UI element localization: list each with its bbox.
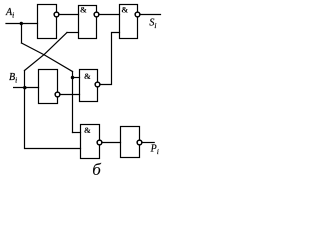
inverter U4 output bubble bbox=[55, 92, 60, 97]
input label Ai bbox=[5, 7, 14, 20]
output label Si bbox=[149, 18, 156, 31]
caption b bbox=[92, 160, 101, 179]
nand U2b output bubble bbox=[95, 82, 100, 87]
nand U2b symbol bbox=[84, 71, 91, 81]
node B junction bbox=[23, 86, 27, 90]
wire U4 out to U2b bbox=[60, 94, 80, 96]
svg-text:&: & bbox=[80, 4, 87, 14]
nand U3 output bubble bbox=[135, 12, 140, 17]
inverter U6 output bubble bbox=[137, 140, 142, 145]
nand U2 body bbox=[79, 6, 97, 39]
node A2 junction bbox=[71, 76, 75, 80]
wire B drop to U5 bbox=[25, 88, 81, 149]
wire Si output bbox=[140, 14, 161, 16]
input label Bi bbox=[9, 72, 17, 85]
node A junction bbox=[20, 22, 23, 25]
wire A to U5 input bbox=[73, 132, 81, 134]
nand U2 output bubble bbox=[94, 12, 99, 17]
wire B rise bbox=[24, 71, 26, 88]
wire Pi output bbox=[142, 142, 154, 144]
wire B to U2 gate input bbox=[67, 32, 79, 34]
wire B diagonal bbox=[25, 33, 68, 71]
inverter U6 body bbox=[121, 127, 140, 158]
wire U5 out to U6 bbox=[102, 142, 121, 144]
wire Bi input bbox=[14, 87, 39, 89]
wire Ai input bbox=[6, 23, 38, 25]
svg-text:&: & bbox=[84, 71, 91, 81]
nand U5 output bubble bbox=[97, 140, 102, 145]
nand U2b body bbox=[80, 70, 98, 102]
wire A riser to lower gates bbox=[72, 72, 74, 133]
svg-text:&: & bbox=[121, 4, 128, 14]
svg-text:б: б bbox=[92, 160, 101, 179]
output label Pi bbox=[150, 143, 159, 156]
nand U5 symbol bbox=[84, 125, 91, 135]
wire A to U4 input bbox=[73, 77, 80, 79]
inverter U1 output bubble bbox=[54, 12, 59, 17]
wire U2 out to U3 bbox=[99, 14, 120, 16]
wire A drop bbox=[21, 24, 23, 44]
nand U2 symbol bbox=[80, 4, 87, 14]
nand U5 body bbox=[81, 125, 100, 159]
inverter U4 body bbox=[39, 70, 58, 104]
wire U1 out to U2 bbox=[59, 14, 79, 16]
nand U3 symbol bbox=[121, 4, 128, 14]
inverter U1 body bbox=[38, 5, 57, 39]
svg-text:&: & bbox=[84, 125, 91, 135]
nand U3 body bbox=[120, 5, 138, 39]
wire U2b out to U3 input bbox=[100, 33, 120, 85]
wire A diagonal bbox=[22, 43, 73, 72]
